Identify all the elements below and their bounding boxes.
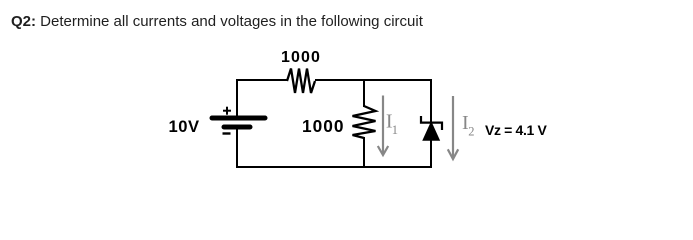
title text: [11, 13, 423, 30]
wire middle branch lower: [363, 137, 365, 168]
wire right branch lower: [430, 139, 432, 168]
battery V1 negative plate: [224, 125, 250, 130]
current arrow I2: [448, 96, 458, 159]
svg-text:1000: 1000: [281, 49, 321, 66]
resistor R2 zigzag (vertical): [353, 106, 376, 138]
svg-text:2: 2: [468, 125, 474, 139]
wire bottom: [236, 166, 432, 168]
wire top-right segment: [315, 79, 431, 81]
battery plus sign: [223, 107, 231, 115]
zener diode D1 cathode bar with bent ends: [421, 116, 442, 130]
wire middle branch upper: [363, 79, 365, 107]
current arrow I1: [378, 96, 388, 156]
resistor R1 zigzag (top): [287, 69, 315, 94]
svg-text:Vz = 4.1 V: Vz = 4.1 V: [485, 122, 547, 138]
svg-text:1000: 1000: [302, 116, 344, 136]
svg-text:1: 1: [392, 123, 398, 137]
svg-text:10V: 10V: [169, 117, 200, 136]
wire right branch upper: [430, 79, 432, 122]
wire top-left segment: [237, 79, 287, 81]
zener diode D1 triangle: [423, 123, 439, 140]
battery minus sign: [223, 132, 231, 134]
wire left lower (battery bottom lead): [236, 129, 238, 168]
battery V1 positive plate: [212, 116, 265, 121]
wire left upper (battery top lead): [236, 79, 238, 116]
